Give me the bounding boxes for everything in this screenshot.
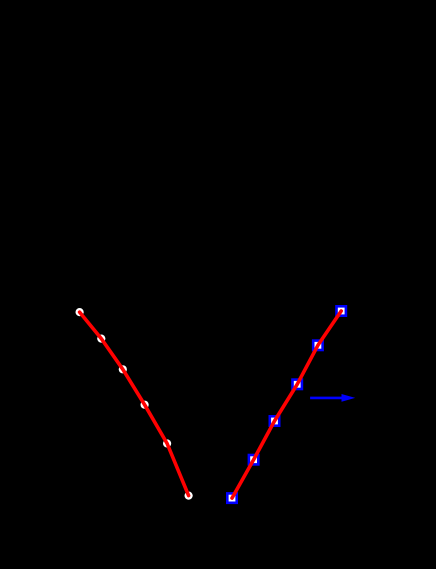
blue annotation arrow (pointing right) bbox=[310, 394, 355, 402]
series 1 marker P5 (white circle) bbox=[163, 439, 171, 447]
series 1 marker P2 (white circle) bbox=[97, 335, 105, 343]
series 1 marker P4 (white circle) bbox=[141, 401, 149, 409]
series 2 marker Q1 (blue open square) bbox=[227, 493, 236, 502]
series 2 marker Q3 (blue open square) bbox=[270, 416, 279, 425]
series 2 marker Q4 (blue open square) bbox=[293, 380, 302, 389]
series 2 red line (ascending) bbox=[232, 311, 341, 498]
series 1 marker P1 (white circle) bbox=[76, 308, 84, 316]
series 1 marker P6 (white circle) bbox=[185, 492, 193, 500]
series 2 marker Q6 (blue open square) bbox=[337, 306, 346, 315]
series 2 marker Q5 (blue open square) bbox=[313, 341, 322, 350]
series 2 marker Q2 (blue open square) bbox=[249, 455, 258, 464]
series 1 marker P3 (white circle) bbox=[119, 365, 127, 373]
series 1 red curve (descending) bbox=[80, 312, 189, 496]
